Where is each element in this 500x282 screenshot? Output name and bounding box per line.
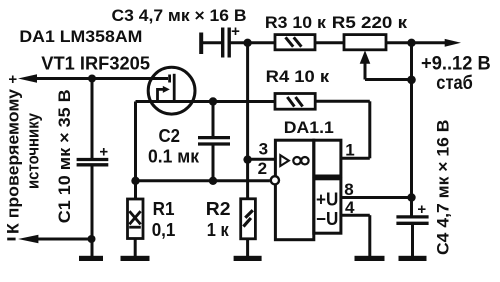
svg-text:−U: −U (316, 209, 338, 229)
wire wiper to rail (365, 78, 412, 81)
capacitor C2 (212, 102, 215, 138)
wire junction to C1 (91, 79, 94, 159)
transistor VT1 channel (173, 74, 176, 102)
wire R3 to R5 (315, 41, 344, 44)
output arrow bottom left (18, 235, 38, 243)
op-amp DA1.1 main box (275, 140, 313, 240)
wire C3 right (229, 41, 247, 44)
wire source rail (136, 100, 276, 103)
junction left rail R1 (131, 177, 139, 185)
svg-text:VT1 IRF3205: VT1 IRF3205 (41, 54, 150, 74)
transistor VT1 gate bar (168, 75, 171, 83)
svg-text:+9..12 В: +9..12 В (421, 54, 491, 75)
capacitor C3 terminal bar (199, 33, 203, 55)
svg-text:1: 1 (345, 140, 354, 159)
junction output rail (407, 39, 415, 47)
output arrow right (445, 39, 461, 47)
wire pin1 (341, 157, 370, 160)
svg-text:+: + (99, 144, 108, 161)
junction source C2 (209, 97, 217, 105)
op-amp pin2 inversion circle (271, 176, 279, 184)
svg-text:DA1 LM358AM: DA1 LM358AM (19, 27, 142, 46)
svg-text:8: 8 (344, 180, 353, 199)
svg-text:+U: +U (316, 190, 338, 210)
junction C3 R3 (243, 39, 251, 47)
wire C4 to ground (411, 223, 414, 256)
ground R1 (121, 256, 150, 261)
ground C1 (79, 256, 103, 261)
svg-text:DA1.1: DA1.1 (284, 118, 334, 137)
svg-text:4: 4 (345, 198, 355, 217)
wire R2 to ground (246, 239, 249, 256)
svg-text:R4 10 к: R4 10 к (266, 67, 330, 86)
resistor R4 (275, 94, 315, 110)
junction input C1 gate (88, 75, 96, 83)
wire pin8 (341, 196, 412, 199)
R5 wiper arrow (360, 50, 371, 63)
wire divider vertical (246, 43, 249, 199)
wire R4 right to pin1 rail (315, 100, 370, 103)
wire source down left (134, 102, 137, 200)
wire R1 to ground (134, 239, 137, 257)
wire output rail vertical (410, 43, 413, 216)
ground R2 (234, 256, 262, 261)
junction pin3 (243, 155, 251, 163)
wire C1 to bottom rail (91, 165, 94, 257)
transistor VT1 substrate arrow (163, 86, 170, 93)
svg-text:К проверяемому: К проверяемому (4, 88, 23, 234)
capacitor C1 (77, 158, 109, 161)
op-amp right field top box (314, 140, 341, 176)
wire feedback rail to pin2 (136, 179, 270, 182)
svg-text:0,1: 0,1 (152, 220, 176, 240)
svg-text:C2: C2 (159, 126, 181, 146)
op-amp right field bottom box (314, 179, 341, 233)
svg-text:+: + (417, 201, 426, 218)
resistor R1 (128, 199, 144, 239)
svg-text:С1 10 мк × 35 В: С1 10 мк × 35 В (55, 89, 74, 223)
ground C4 (399, 256, 427, 261)
svg-text:3: 3 (259, 140, 268, 159)
svg-text:источнику: источнику (24, 113, 43, 189)
transistor VT1 body (148, 67, 195, 114)
resistor R3 (275, 35, 315, 50)
svg-text:R3 10 к: R3 10 к (265, 13, 326, 32)
svg-text:R2: R2 (206, 199, 231, 219)
svg-text:+: + (8, 71, 17, 88)
resistor R2 (241, 199, 256, 239)
svg-text:С4 4,7 мк × 16 В: С4 4,7 мк × 16 В (434, 120, 453, 256)
svg-text:+: + (231, 23, 240, 40)
op-amp triangle symbol (280, 155, 289, 166)
svg-text:1 к: 1 к (207, 220, 230, 240)
junction pin8 rail (407, 193, 415, 201)
svg-text:R1: R1 (153, 199, 175, 219)
input arrow top left (18, 74, 37, 82)
junction wiper rail (407, 76, 416, 85)
wire bottom arrow (30, 238, 92, 241)
svg-text:R5 220 к: R5 220 к (332, 13, 408, 32)
svg-text:0.1 мк: 0.1 мк (148, 147, 200, 167)
svg-text:С3 4,7 мк × 16 В: С3 4,7 мк × 16 В (112, 6, 247, 25)
wire pin4 (341, 214, 370, 217)
wire pin3 (248, 158, 276, 161)
op-amp infinity symbol (293, 157, 300, 164)
capacitor C4 (396, 215, 428, 218)
svg-text:2: 2 (258, 159, 267, 178)
junction bottom arrow (88, 235, 96, 243)
capacitor C3 (221, 28, 224, 58)
potentiometer R5 (344, 35, 386, 50)
wire C3 node to R3 (248, 41, 275, 44)
ground pin4 (355, 256, 385, 261)
junction C2 bottom (209, 177, 217, 185)
wire R5 to output arrow (386, 41, 447, 44)
minus terminal sign bottom left (7, 238, 15, 241)
wire C3 left (201, 41, 221, 44)
svg-text:стаб: стаб (436, 73, 473, 94)
wire gate feed (30, 77, 168, 80)
transistor VT1 substrate stub (158, 89, 164, 101)
